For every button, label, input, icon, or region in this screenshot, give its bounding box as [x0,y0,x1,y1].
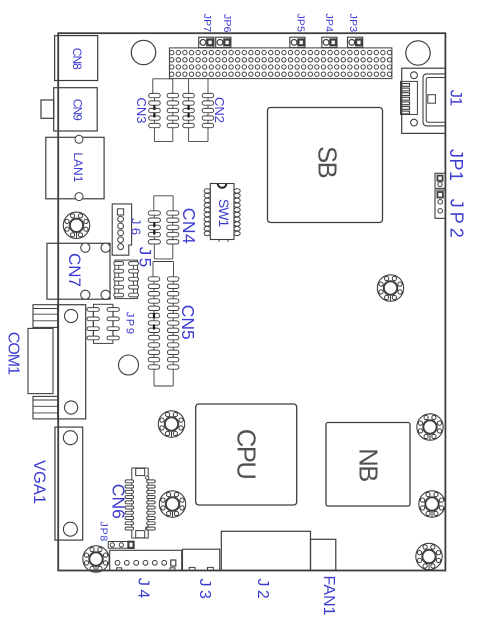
svg-text:JP9: JP9 [124,312,136,336]
jumper JP4 [322,37,337,47]
svg-text:JP2: JP2 [446,199,466,242]
mounting hole (bottom-right) [416,543,442,569]
DIP switch SW1 [204,184,240,243]
connector J5 [114,260,139,299]
mounting hole (left, below LAN1) [63,212,89,238]
svg-text:NB: NB [354,448,382,481]
jumper JP1 [435,173,445,188]
label J6 [128,218,143,239]
mounting hole (right-centre) [377,275,403,301]
svg-text:J4: J4 [135,578,152,602]
label CN3 [134,97,149,123]
label CN7 [65,253,84,287]
label JP7 [201,14,213,33]
label FAN1 [320,575,337,615]
label SB (chip text) [313,146,341,178]
label J4 [135,578,152,602]
svg-text:JP6: JP6 [221,14,233,33]
chip CPU [196,404,297,505]
jumper JP6 [216,37,231,47]
label JP4 [323,13,335,32]
label CN4 [179,208,199,245]
label LAN1 [71,152,85,182]
label J3 [196,579,213,603]
svg-text:CN7: CN7 [65,253,84,287]
header JP9 [87,304,119,343]
connector CN8 [55,36,98,81]
jumper JP8 [108,542,134,549]
hole (plain) mid-left [119,355,139,375]
connector CN9 [41,88,97,131]
label CN6 [108,484,128,519]
svg-text:JP8: JP8 [98,522,110,543]
jumper JP3 [348,37,363,47]
connector J4 [110,550,182,570]
connector J6 [112,204,131,255]
connector CN5 [148,262,179,387]
svg-text:VGA1: VGA1 [30,460,48,504]
svg-text:JP4: JP4 [323,13,335,32]
label J2 [254,578,271,602]
svg-text:JP3: JP3 [347,14,359,33]
label JP5 [295,13,307,32]
jumper JP5 [290,37,305,47]
svg-text:CN6: CN6 [108,484,128,519]
connector CN7 [47,243,110,299]
label CN2 [212,97,227,123]
svg-text:CPU: CPU [232,429,260,478]
mounting hole (right of NB top) [417,414,443,440]
label CN9 [70,99,84,121]
svg-text:SB: SB [313,146,341,178]
resistor network CN3 [149,79,179,142]
svg-text:JP7: JP7 [201,14,213,33]
mounting hole (left of CPU bottom) [159,491,185,517]
chip SB [268,108,383,223]
label SW1 [216,199,232,228]
label J1 [447,90,465,106]
label VGA1 [30,460,48,504]
label JP6 [221,14,233,33]
resistor network CN2 [183,79,214,142]
svg-text:CN3: CN3 [134,97,149,123]
chip NB [326,423,410,507]
svg-text:CN5: CN5 [178,305,198,340]
connector COM1 (DB9) [28,305,86,419]
hole (plain) top-right [406,41,430,65]
mounting hole (right of NB bottom) [419,491,445,517]
mounting hole (bottom-left) [83,546,109,572]
svg-text:J5: J5 [136,247,155,270]
connector J3 [183,549,220,570]
PCB board outline [58,33,445,570]
svg-text:J1: J1 [447,90,465,106]
label JP3 [347,14,359,33]
jumper JP7 [199,37,214,47]
label NB (chip text) [354,448,382,481]
svg-text:JP5: JP5 [295,13,307,32]
connector LAN1 [46,135,104,200]
svg-text:CN4: CN4 [179,208,199,245]
svg-text:LAN1: LAN1 [71,152,85,182]
svg-text:CN8: CN8 [70,48,84,70]
connector CN4 [148,196,179,259]
label JP9 [124,312,136,336]
svg-text:SW1: SW1 [216,199,232,228]
svg-text:J3: J3 [196,579,213,603]
label CN5 [178,305,198,340]
label JP2 [446,199,466,242]
svg-text:FAN1: FAN1 [320,575,337,615]
label CPU (chip text) [232,429,260,478]
svg-text:COM1: COM1 [4,332,21,375]
connector CN6 [125,468,155,538]
connector J2 [221,531,310,570]
label COM1 [4,332,21,375]
mounting hole (left of CPU top) [158,411,184,437]
svg-text:CN9: CN9 [70,99,84,121]
label CN8 [70,48,84,70]
hole (plain) top-left [131,40,155,64]
connector FAN1 [311,539,336,570]
label JP1 [446,149,466,182]
svg-text:CN2: CN2 [212,97,227,123]
svg-text:J2: J2 [254,578,271,602]
svg-text:JP1: JP1 [446,149,466,182]
svg-text:J6: J6 [128,218,143,239]
jumper JP2 [435,190,445,218]
pin header grid CN1 [169,48,392,79]
connector J1 [401,68,446,133]
label JP8 [98,522,110,543]
label J5 [136,247,155,270]
connector VGA1 [55,427,83,540]
